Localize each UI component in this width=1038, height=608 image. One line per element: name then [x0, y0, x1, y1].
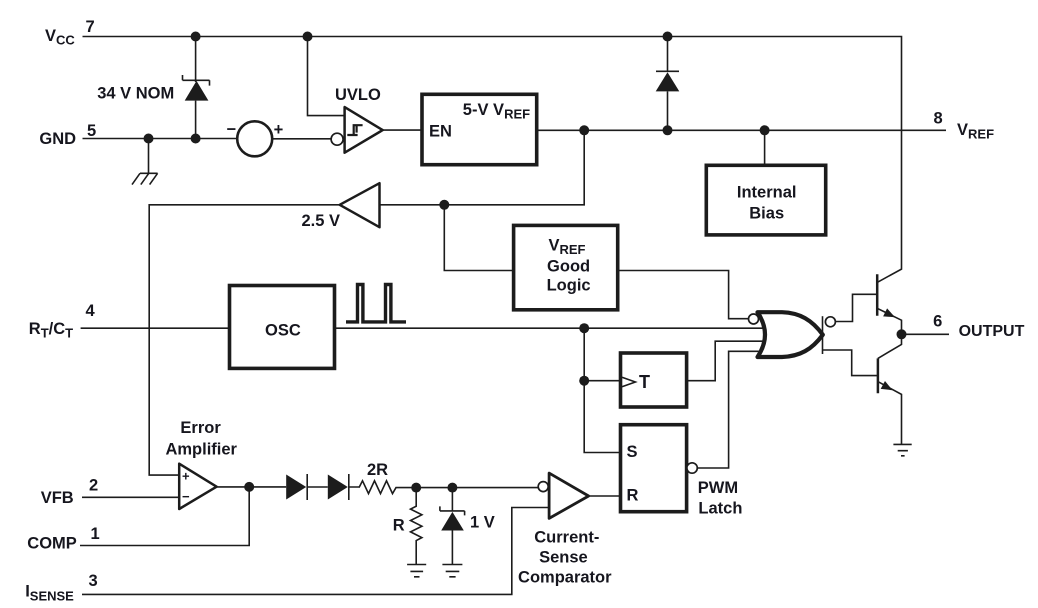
svg-text:7: 7: [86, 18, 95, 36]
svg-text:Latch: Latch: [698, 499, 742, 517]
svg-text:OSC: OSC: [265, 322, 301, 340]
svg-text:VFB: VFB: [41, 489, 74, 507]
svg-text:−: −: [227, 121, 237, 139]
svg-text:COMP: COMP: [27, 535, 77, 553]
svg-text:ISENSE: ISENSE: [25, 582, 74, 603]
svg-text:5: 5: [87, 122, 96, 140]
svg-text:1: 1: [91, 525, 100, 543]
svg-text:2.5 V: 2.5 V: [302, 212, 341, 230]
svg-text:Internal: Internal: [737, 184, 797, 202]
svg-text:8: 8: [934, 109, 943, 127]
svg-text:GND: GND: [39, 130, 76, 148]
svg-text:UVLO: UVLO: [335, 86, 381, 104]
svg-text:−: −: [182, 489, 190, 504]
svg-text:+: +: [274, 121, 284, 139]
svg-text:OUTPUT: OUTPUT: [959, 323, 1025, 340]
svg-text:2R: 2R: [367, 461, 388, 479]
svg-text:2: 2: [89, 477, 98, 495]
svg-text:Sense: Sense: [539, 549, 588, 567]
svg-text:Good: Good: [547, 257, 590, 275]
svg-text:PWM: PWM: [698, 479, 738, 497]
svg-text:T: T: [639, 372, 650, 392]
svg-text:Bias: Bias: [749, 205, 784, 223]
svg-text:+: +: [182, 469, 190, 484]
svg-text:R: R: [393, 516, 405, 534]
svg-text:R: R: [627, 486, 639, 504]
svg-text:EN: EN: [429, 122, 452, 140]
svg-text:1 V: 1 V: [470, 514, 495, 532]
svg-text:Error: Error: [180, 419, 221, 437]
svg-text:RT/CT: RT/CT: [29, 320, 73, 341]
svg-text:Comparator: Comparator: [518, 569, 612, 587]
svg-text:VCC: VCC: [45, 27, 75, 48]
svg-text:Current-: Current-: [534, 528, 599, 546]
svg-text:3: 3: [89, 572, 98, 590]
svg-text:Amplifier: Amplifier: [165, 440, 237, 458]
svg-text:VREF: VREF: [957, 121, 994, 142]
svg-text:4: 4: [86, 302, 96, 320]
svg-text:34 V NOM: 34 V NOM: [97, 85, 174, 103]
svg-text:Logic: Logic: [547, 276, 591, 294]
svg-text:S: S: [627, 443, 638, 461]
svg-text:6: 6: [933, 313, 942, 331]
